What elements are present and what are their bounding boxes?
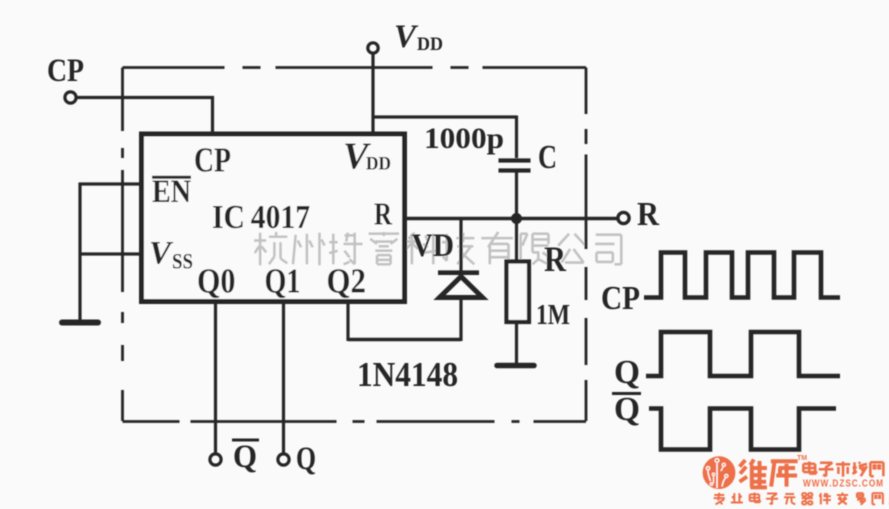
svg-text:1M: 1M bbox=[536, 299, 570, 331]
svg-text:R: R bbox=[544, 239, 567, 279]
svg-text:CP: CP bbox=[601, 280, 640, 317]
svg-text:Q1: Q1 bbox=[265, 262, 301, 301]
svg-text:DD: DD bbox=[417, 34, 443, 55]
svg-text:Q0: Q0 bbox=[197, 262, 236, 301]
svg-text:WWW.DZSC.COM: WWW.DZSC.COM bbox=[803, 478, 884, 490]
svg-text:Q: Q bbox=[296, 441, 316, 477]
svg-text:1N4148: 1N4148 bbox=[357, 355, 458, 394]
svg-text:R: R bbox=[374, 197, 393, 232]
svg-text:C: C bbox=[538, 139, 557, 176]
svg-text:Q: Q bbox=[233, 439, 257, 475]
svg-text:V: V bbox=[149, 236, 174, 272]
svg-text:TM: TM bbox=[797, 455, 807, 462]
svg-text:CP: CP bbox=[194, 141, 231, 180]
svg-text:Q2: Q2 bbox=[327, 262, 367, 301]
svg-text:V: V bbox=[394, 19, 419, 55]
svg-text:EN: EN bbox=[152, 174, 191, 210]
svg-text:SS: SS bbox=[172, 249, 193, 274]
svg-text:CP: CP bbox=[47, 53, 84, 89]
svg-text:Q: Q bbox=[614, 354, 640, 391]
svg-text:1000p: 1000p bbox=[424, 122, 504, 155]
svg-text:VD: VD bbox=[412, 228, 455, 264]
svg-text:R: R bbox=[637, 196, 659, 233]
svg-text:Q: Q bbox=[614, 391, 640, 428]
svg-text:IC 4017: IC 4017 bbox=[212, 199, 310, 236]
svg-text:DD: DD bbox=[366, 154, 391, 175]
